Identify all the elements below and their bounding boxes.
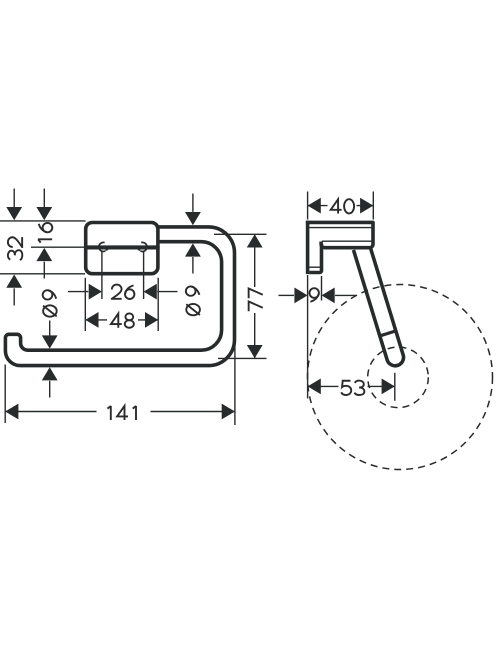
roll-holder bar outline (top bar, right bend, bottom bar, left hook) bbox=[5, 227, 234, 366]
dim 141 arrows bbox=[5, 404, 18, 420]
dim 40 arrows bbox=[308, 198, 321, 214]
dim 16 arrow shafts bbox=[43, 189, 45, 208]
dim texts right view bbox=[310, 198, 368, 397]
extension line: top of wall plate bbox=[0, 220, 86, 222]
dim 26 arrows bbox=[89, 284, 102, 300]
label 53 bbox=[339, 379, 368, 396]
seam on lower slab bbox=[306, 266, 321, 268]
extension line: seam level (16) bbox=[31, 246, 84, 248]
dim Ø9 left arrows bbox=[42, 335, 58, 348]
dim 9 arrows bbox=[294, 288, 307, 304]
label Ø 9 right bbox=[186, 286, 200, 315]
label 77 bbox=[246, 287, 264, 313]
dim 48 line bbox=[85, 319, 158, 321]
plate seam line (thick) bbox=[84, 245, 160, 249]
dim 48 extension lines bbox=[84, 278, 86, 331]
dim 141 line bbox=[5, 411, 235, 413]
arrowheads right view bbox=[294, 198, 394, 395]
label 9 bbox=[310, 287, 321, 304]
roll arm rod (side view, angled capsule) bbox=[354, 247, 404, 366]
dim 77 arrows bbox=[247, 234, 263, 247]
dim 16 arrows bbox=[36, 207, 52, 220]
dim 141 extension lines bbox=[4, 365, 6, 424]
extension line: bottom of wall plate bbox=[0, 273, 85, 275]
rod seam mark bbox=[380, 331, 396, 336]
dim 40 extension lines bbox=[307, 192, 309, 220]
dim Ø9 right arrows bbox=[185, 212, 201, 225]
label 40 bbox=[328, 198, 357, 216]
dim 77 line bbox=[254, 234, 256, 358]
dim 9 extension line right bbox=[321, 276, 323, 301]
dim 26 arrow shafts bbox=[68, 291, 88, 293]
label 16 bbox=[38, 223, 52, 243]
roll axis tick at rod tip bbox=[394, 373, 396, 401]
inner thin line under top face bbox=[309, 227, 371, 229]
dim Ø9 left arrow shafts bbox=[49, 321, 51, 337]
dim 48 arrows bbox=[85, 312, 98, 328]
dim 53 arrows bbox=[308, 379, 321, 395]
label 141 bbox=[97, 404, 151, 421]
label 32 bbox=[8, 237, 22, 260]
wall plate back edge (side view) bbox=[306, 221, 310, 274]
bracket body (side view) bbox=[306, 222, 373, 247]
label Ø9 left bbox=[43, 290, 57, 317]
dim 32 arrows bbox=[6, 207, 22, 220]
dim 9 arrow shafts bbox=[279, 294, 295, 296]
clip rotation symbol right bbox=[141, 242, 147, 251]
dim 32 arrow shafts bbox=[13, 189, 15, 208]
dim Ø9 right arrow shafts bbox=[192, 194, 194, 212]
inner thin line under body bbox=[322, 240, 372, 242]
paper roll outer circle (dashed) bbox=[308, 285, 493, 470]
paper roll core circle (dashed) bbox=[368, 347, 429, 408]
clip rotation symbol left bbox=[99, 242, 105, 251]
wall extension line below bracket bbox=[307, 275, 309, 399]
label 48 bbox=[107, 311, 138, 329]
dim 26 extension lines bbox=[101, 251, 103, 299]
dim 53 line bbox=[308, 385, 395, 387]
wall plate lower slab front edge + bottom cap bbox=[309, 244, 321, 273]
label 26 bbox=[112, 285, 135, 299]
wall plate (front view, rounded rect) bbox=[86, 223, 158, 274]
dim texts left view bbox=[8, 223, 264, 421]
dim 40 line bbox=[308, 205, 374, 207]
dim 77 extension lines bbox=[214, 233, 267, 235]
arrowheads left view bbox=[5, 207, 262, 419]
